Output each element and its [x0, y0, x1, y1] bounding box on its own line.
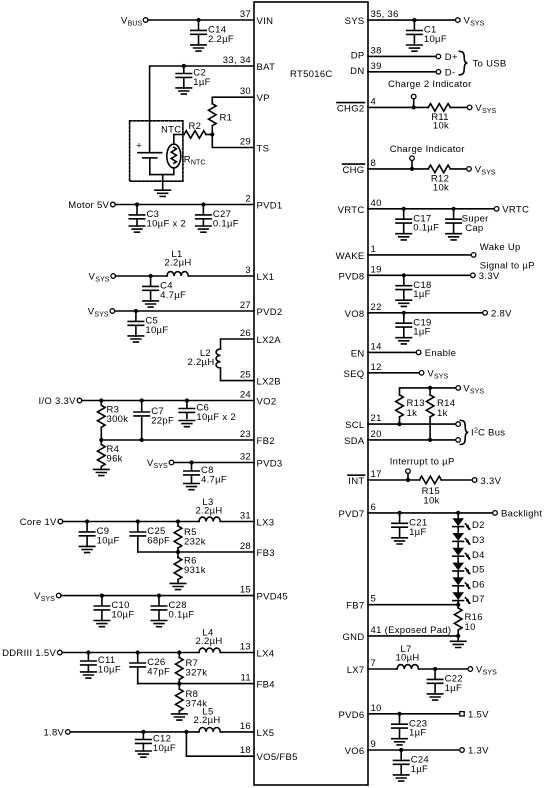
- battery pack dashed box: [130, 121, 183, 181]
- ground C17: [396, 234, 411, 240]
- ground C1: [407, 45, 422, 51]
- capacitor C1 10µF: [407, 20, 447, 45]
- thermistor RNTC: [161, 124, 206, 168]
- svg-text:2.8V: 2.8V: [491, 308, 512, 319]
- svg-text:LX2A: LX2A: [257, 335, 282, 346]
- capacitor C3 10µF x 2: [129, 205, 186, 230]
- svg-text:1k: 1k: [437, 408, 448, 419]
- pin 1 WAKE: [336, 244, 376, 262]
- svg-text:PVD45: PVD45: [257, 592, 289, 603]
- wire VO6: [368, 749, 460, 751]
- junction C23: [397, 712, 401, 716]
- svg-text:D4: D4: [472, 550, 485, 561]
- capacitor C6 10µF x 2: [179, 401, 236, 424]
- ground C12: [136, 751, 151, 757]
- ground C6: [179, 421, 194, 427]
- wire FB7: [368, 604, 458, 606]
- wire VP to R1: [212, 97, 254, 104]
- svg-text:9: 9: [371, 739, 377, 750]
- capacitor Super Cap: [446, 209, 489, 234]
- node D- terminal: [436, 68, 455, 79]
- svg-text:17: 17: [371, 469, 382, 480]
- svg-text:3.3V: 3.3V: [481, 476, 502, 487]
- junction C10: [100, 594, 104, 598]
- svg-text:1µF: 1µF: [413, 327, 430, 338]
- svg-text:INT: INT: [348, 476, 364, 487]
- wire NTC to R2: [174, 135, 182, 145]
- node 1.8V terminal: [43, 727, 70, 738]
- resistor R12 10k: [428, 165, 450, 193]
- svg-text:10µF: 10µF: [111, 610, 134, 621]
- svg-text:10µF: 10µF: [424, 34, 447, 45]
- wire PVD1: [115, 204, 254, 206]
- svg-text:D3: D3: [472, 535, 485, 546]
- svg-text:13: 13: [240, 642, 251, 653]
- capacitor C26 47pF: [130, 653, 170, 684]
- brace To USB: [459, 51, 467, 75]
- junction VO5 branch: [184, 730, 188, 734]
- resistor R5 232k: [174, 522, 206, 553]
- battery cell: [136, 141, 161, 175]
- junction GND/R16: [456, 634, 460, 638]
- pin 27 PVD2: [240, 300, 283, 318]
- junction C26: [136, 650, 140, 654]
- svg-text:2.2µH: 2.2µH: [187, 357, 214, 368]
- pin 40 VRTC: [338, 198, 382, 216]
- node Charge 2 Indicator stub: [411, 94, 416, 107]
- junction Super Cap: [452, 207, 456, 211]
- pin 32 PVD3: [240, 452, 283, 470]
- svg-text:3: 3: [245, 265, 251, 276]
- svg-text:10k: 10k: [433, 121, 449, 132]
- ground C22: [427, 694, 442, 700]
- resistor R14 1k: [426, 388, 455, 440]
- pin 25 LX2B: [240, 370, 281, 388]
- wire BAT to battery: [150, 66, 254, 152]
- svg-text:10µF: 10µF: [153, 743, 176, 754]
- svg-text:PVD2: PVD2: [257, 307, 283, 318]
- ground R4: [94, 469, 109, 475]
- junction C6: [185, 398, 189, 402]
- node VSYS terminal LX7: [468, 665, 497, 677]
- svg-text:VRTC: VRTC: [502, 204, 529, 215]
- svg-text:RT5016C: RT5016C: [290, 69, 333, 80]
- wire WAKE: [368, 254, 471, 256]
- wire LX7 right: [419, 668, 469, 670]
- svg-text:40: 40: [371, 198, 382, 209]
- svg-text:28: 28: [240, 541, 251, 552]
- wire SEQ: [368, 372, 419, 374]
- pin 24 VO2: [240, 390, 277, 408]
- svg-text:31: 31: [240, 511, 251, 522]
- wire R1 to junction: [211, 126, 213, 135]
- wire DP: [368, 55, 436, 57]
- junction C17: [402, 207, 406, 211]
- svg-text:SEQ: SEQ: [344, 369, 365, 380]
- svg-text:PVD7: PVD7: [338, 509, 364, 520]
- ground C9: [79, 546, 94, 552]
- svg-text:1µF: 1µF: [413, 289, 430, 300]
- pin 3 LX1: [245, 265, 274, 283]
- svg-text:LX4: LX4: [257, 649, 275, 660]
- pin 21 SCL: [345, 413, 382, 431]
- svg-text:CHG2: CHG2: [337, 103, 365, 114]
- junction C28: [157, 594, 161, 598]
- svg-text:10µF x 2: 10µF x 2: [196, 412, 236, 423]
- svg-text:1.5V: 1.5V: [468, 709, 489, 720]
- pin 19 PVD8: [338, 264, 381, 282]
- svg-text:1.8V: 1.8V: [43, 727, 64, 738]
- svg-text:2: 2: [245, 194, 251, 205]
- svg-text:2.2µH: 2.2µH: [193, 715, 220, 726]
- svg-text:D5: D5: [472, 565, 485, 576]
- ground C11: [81, 672, 96, 678]
- pin 38 DP: [351, 45, 382, 61]
- ground C28: [151, 621, 166, 627]
- svg-text:4.7µF: 4.7µF: [160, 290, 186, 301]
- svg-text:1.3V: 1.3V: [468, 746, 489, 757]
- svg-text:SDA: SDA: [344, 436, 365, 447]
- svg-text:SCL: SCL: [345, 420, 364, 431]
- pin 26 LX2A: [240, 328, 281, 346]
- svg-text:LX3: LX3: [257, 518, 275, 529]
- capacitor C10 10µF: [94, 596, 134, 621]
- svg-text:35, 36: 35, 36: [371, 9, 399, 20]
- capacitor C18 1µF: [396, 275, 432, 300]
- node VSYS terminal LX1: [89, 272, 116, 284]
- junction C7: [140, 398, 144, 402]
- svg-text:37: 37: [240, 9, 251, 20]
- svg-text:D-: D-: [445, 68, 456, 79]
- pin 12 SEQ: [344, 362, 382, 380]
- node SCL terminal: [456, 422, 461, 427]
- wire SCL: [368, 423, 456, 425]
- wire GND: [368, 635, 458, 637]
- pin 41 (Exposed Pad) GND: [342, 625, 451, 643]
- node VSYS terminal PVD3: [147, 458, 174, 470]
- junction C11: [86, 650, 90, 654]
- svg-text:BAT: BAT: [257, 62, 276, 73]
- junction R5: [176, 519, 180, 523]
- svg-text:PVD8: PVD8: [338, 271, 364, 282]
- node VSYS terminal PVD2: [88, 307, 115, 319]
- pin 18 VO5/FB5: [240, 745, 298, 763]
- svg-text:96k: 96k: [107, 453, 123, 464]
- ground C8: [184, 484, 199, 490]
- resistor R3 300k: [98, 401, 129, 441]
- svg-text:327k: 327k: [186, 667, 208, 678]
- capacitor C17 0.1µF: [396, 209, 439, 234]
- node VBUS terminal: [121, 16, 148, 28]
- pin 4 CHG2: [337, 96, 376, 114]
- LED D3: [452, 533, 484, 546]
- ground C10: [94, 621, 109, 627]
- svg-text:7: 7: [371, 658, 377, 669]
- wire EN: [368, 351, 416, 353]
- svg-text:D6: D6: [472, 579, 485, 590]
- inductor L1 2.2µH: [164, 249, 191, 276]
- wire PVD7: [368, 512, 493, 514]
- svg-text:VRTC: VRTC: [338, 205, 365, 216]
- junction C21: [398, 511, 402, 515]
- pin 29 TS: [240, 137, 269, 155]
- wire R15 to 3.3V: [441, 479, 472, 481]
- wire battery to ground: [162, 175, 164, 191]
- svg-text:LX2B: LX2B: [257, 377, 281, 388]
- svg-text:Motor 5V: Motor 5V: [68, 200, 109, 211]
- capacitor C11 10µF: [81, 653, 121, 676]
- svg-text:10µF: 10µF: [97, 535, 120, 546]
- pin 30 VP: [240, 86, 270, 104]
- wire LED chain: [457, 513, 459, 605]
- wire LX3 right: [220, 521, 254, 523]
- capacitor C23 1µF: [392, 714, 428, 739]
- svg-text:FB7: FB7: [346, 601, 364, 612]
- svg-text:PVD1: PVD1: [257, 201, 283, 212]
- svg-text:4: 4: [371, 96, 377, 107]
- svg-text:47pF: 47pF: [147, 667, 170, 678]
- svg-text:0.1µF: 0.1µF: [213, 218, 239, 229]
- inductor L4 2.2µH: [195, 628, 222, 653]
- node Interrupt stub: [406, 469, 411, 480]
- capacitor C7 22pF: [134, 401, 174, 441]
- svg-text:24: 24: [240, 390, 251, 401]
- ground C18: [396, 300, 411, 306]
- junction FB4/R8: [177, 682, 181, 686]
- node SDA terminal: [456, 438, 461, 443]
- svg-text:LX5: LX5: [257, 728, 275, 739]
- resistor R1: [209, 104, 233, 126]
- svg-text:27: 27: [240, 300, 251, 311]
- svg-text:FB4: FB4: [257, 680, 275, 691]
- node VSYS terminal rail: [456, 384, 484, 396]
- wire SDA: [368, 439, 456, 441]
- capacitor C5 10µF: [128, 311, 168, 336]
- svg-text:6: 6: [371, 502, 377, 513]
- junction R13/SCL: [397, 422, 401, 426]
- svg-text:GND: GND: [342, 632, 364, 643]
- svg-text:VO6: VO6: [345, 746, 365, 757]
- svg-text:10: 10: [465, 622, 476, 633]
- junction C12: [141, 730, 145, 734]
- svg-text:16: 16: [240, 721, 251, 732]
- svg-text:10µF: 10µF: [145, 325, 168, 336]
- svg-text:VO2: VO2: [257, 397, 277, 408]
- pin 16 LX5: [240, 721, 274, 739]
- svg-text:931k: 931k: [184, 565, 206, 576]
- svg-text:8: 8: [371, 158, 377, 169]
- capacitor C25 68pF: [130, 522, 170, 553]
- node I/O 3.3V terminal: [39, 396, 82, 407]
- wire LX7 left: [368, 668, 397, 670]
- wire VBUS to VIN: [148, 19, 254, 21]
- svg-text:41 (Exposed Pad): 41 (Exposed Pad): [371, 625, 452, 636]
- svg-text:LX1: LX1: [257, 272, 275, 283]
- svg-text:VP: VP: [257, 93, 270, 104]
- capacitor C8 4.7µF: [184, 463, 227, 486]
- junction LED chain top: [456, 511, 460, 515]
- LED D6: [452, 577, 484, 590]
- node DDRIII 1.5V terminal: [2, 648, 62, 659]
- resistor R4 96k: [98, 440, 123, 469]
- svg-text:To USB: To USB: [473, 59, 507, 70]
- svg-text:1µF: 1µF: [409, 527, 426, 538]
- svg-text:Charge 2 Indicator: Charge 2 Indicator: [388, 79, 472, 90]
- pin 28 FB3: [240, 541, 275, 559]
- wire R11 to VSYS: [450, 106, 467, 108]
- node 1.5V square terminal: [460, 709, 489, 720]
- svg-text:10µF x 2: 10µF x 2: [147, 218, 187, 229]
- junction R14 top: [428, 386, 432, 390]
- ground battery: [155, 190, 170, 196]
- pin 9 VO6: [345, 739, 377, 757]
- svg-text:DN: DN: [350, 66, 364, 77]
- capacitor C9 10µF: [79, 522, 119, 547]
- wire FB4: [138, 683, 254, 685]
- wire battery bottom: [150, 168, 174, 175]
- svg-text:15: 15: [240, 585, 251, 596]
- pin 17 INT: [348, 469, 382, 487]
- resistor R8 374k: [176, 684, 208, 714]
- svg-text:SYS: SYS: [345, 16, 365, 27]
- resistor R15 10k: [419, 476, 441, 506]
- node VSYS terminal PVD45: [34, 591, 61, 603]
- wire junction to TS: [212, 135, 254, 148]
- svg-text:1: 1: [371, 244, 377, 255]
- junction FB3/R6: [176, 550, 180, 554]
- junction R3: [99, 398, 103, 402]
- ground C23: [392, 739, 407, 745]
- node Wake Up terminal: [471, 242, 535, 272]
- svg-text:29: 29: [240, 137, 251, 148]
- svg-text:21: 21: [371, 413, 382, 424]
- svg-text:2.2µH: 2.2µH: [164, 258, 191, 269]
- wire PVD3: [174, 462, 254, 464]
- svg-text:232k: 232k: [184, 536, 206, 547]
- junction CHG: [410, 167, 414, 171]
- svg-text:TS: TS: [257, 144, 270, 155]
- svg-text:VO8: VO8: [345, 309, 365, 320]
- capacitor C4 4.7µF: [143, 276, 186, 301]
- svg-text:Enable: Enable: [425, 348, 456, 359]
- node VSYS terminal SYS: [456, 16, 485, 28]
- brace I2C Bus: [460, 420, 468, 444]
- svg-text:R2: R2: [189, 121, 202, 132]
- ground C3: [129, 226, 144, 232]
- node Enable terminal: [416, 348, 456, 359]
- wire LX4 left: [62, 652, 199, 654]
- wire LX2A: [221, 339, 255, 349]
- svg-text:DP: DP: [351, 51, 365, 62]
- pin 6 PVD7: [338, 502, 376, 520]
- wire PVD2: [115, 310, 254, 312]
- resistor R7 327k: [176, 653, 208, 684]
- svg-text:19: 19: [371, 264, 382, 275]
- wire PVD6: [368, 713, 460, 715]
- svg-text:WAKE: WAKE: [336, 251, 365, 262]
- wire LX2B: [221, 368, 255, 381]
- IC U1 RT5016C body: [254, 2, 368, 785]
- svg-text:12: 12: [371, 362, 382, 373]
- node 3.3V terminal PVD8: [471, 271, 500, 282]
- svg-text:10µH: 10µH: [395, 653, 419, 664]
- wire INT: [368, 479, 419, 481]
- junction C24: [399, 748, 403, 752]
- resistor R13 1k: [396, 395, 425, 424]
- svg-text:25: 25: [240, 370, 251, 381]
- svg-text:Charge Indicator: Charge Indicator: [390, 144, 465, 155]
- svg-text:PVD3: PVD3: [257, 459, 283, 470]
- resistor R11 10k: [428, 104, 450, 132]
- junction C9: [85, 519, 89, 523]
- pin 5 FB7: [346, 594, 376, 612]
- inductor L7 10µH: [395, 644, 419, 669]
- wire VRTC: [368, 208, 494, 210]
- LED D5: [452, 563, 484, 576]
- node VRTC terminal: [494, 204, 529, 215]
- node 3.3V terminal INT: [472, 476, 501, 487]
- wire LX5 right: [220, 731, 254, 733]
- capacitor C2 1µF: [176, 66, 211, 88]
- junction C25: [136, 519, 140, 523]
- resistor R6 931k: [174, 552, 206, 583]
- svg-text:VIN: VIN: [257, 16, 274, 27]
- ground C19: [396, 338, 411, 344]
- capacitor C14 2.2µF: [191, 20, 234, 45]
- ground C14: [191, 45, 206, 51]
- ground R8: [172, 714, 187, 720]
- svg-text:VO5/FB5: VO5/FB5: [257, 752, 298, 763]
- node Motor 5V terminal: [68, 200, 115, 211]
- junction C18: [402, 273, 406, 277]
- wire GND to ground: [457, 636, 459, 641]
- svg-text:LX7: LX7: [347, 665, 365, 676]
- svg-text:39: 39: [371, 61, 382, 72]
- svg-text:Backlight: Backlight: [501, 509, 542, 520]
- node VSYS terminal SEQ: [419, 368, 448, 380]
- svg-text:5: 5: [371, 594, 377, 605]
- svg-text:Core 1V: Core 1V: [20, 517, 57, 528]
- ground C21: [392, 538, 407, 544]
- node Backlight terminal: [493, 509, 543, 520]
- svg-text:FB2: FB2: [257, 436, 275, 447]
- junction C4: [149, 274, 153, 278]
- ground R6: [170, 583, 185, 589]
- svg-text:26: 26: [240, 328, 251, 339]
- svg-text:CHG: CHG: [342, 165, 364, 176]
- pin 33, 34 BAT: [223, 55, 275, 73]
- pin 39 DN: [350, 61, 382, 77]
- pin 35, 36 SYS: [345, 9, 399, 27]
- svg-text:PVD6: PVD6: [338, 710, 364, 721]
- node VSYS terminal CHG: [467, 164, 496, 176]
- svg-text:68pF: 68pF: [147, 536, 170, 547]
- node Charge Indicator stub: [410, 156, 415, 169]
- svg-text:I/O 3.3V: I/O 3.3V: [39, 396, 77, 407]
- svg-text:22: 22: [371, 302, 382, 313]
- junction R7: [177, 650, 181, 654]
- svg-text:D2: D2: [472, 520, 485, 531]
- capacitor C24 1µF: [394, 750, 430, 775]
- svg-text:300k: 300k: [107, 414, 129, 425]
- svg-text:2.2µH: 2.2µH: [195, 506, 222, 517]
- capacitor C22 1µF: [427, 669, 463, 694]
- ground C4: [143, 301, 158, 307]
- wire VO2: [82, 400, 254, 402]
- svg-text:10k: 10k: [423, 495, 439, 506]
- svg-text:EN: EN: [351, 348, 365, 359]
- pin 7 LX7: [347, 658, 376, 676]
